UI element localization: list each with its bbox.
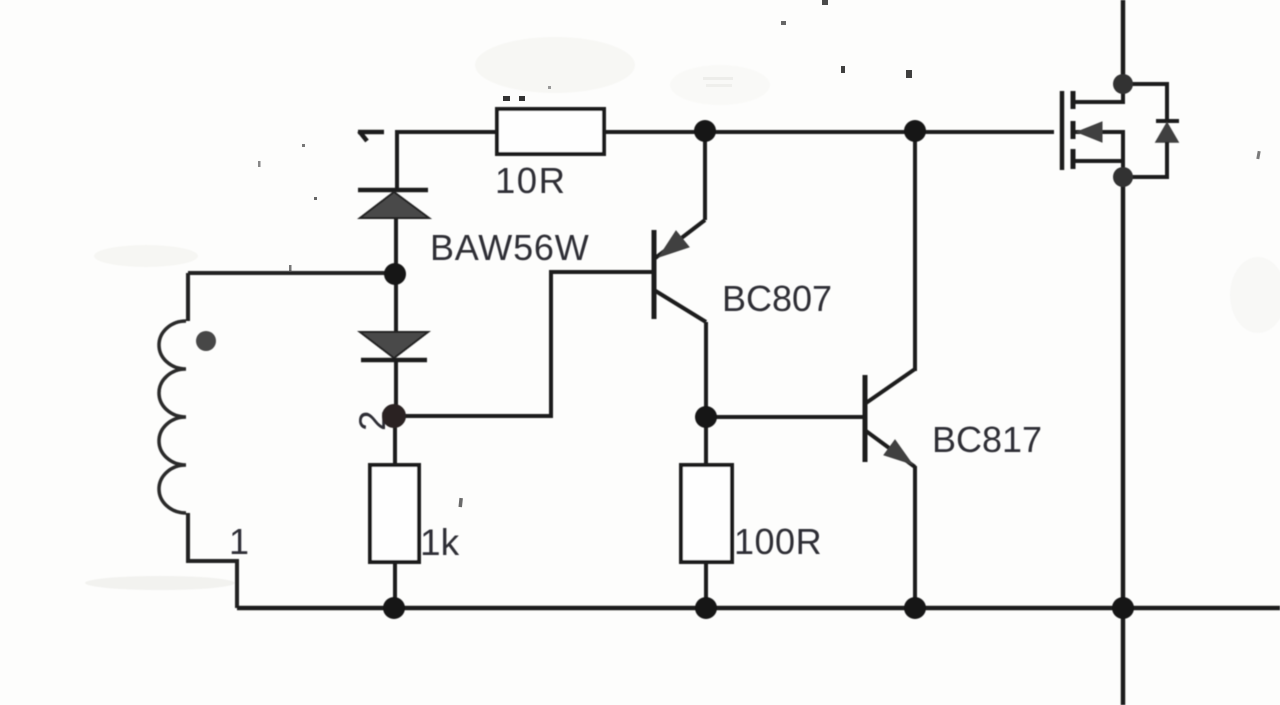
body diode of mosfet (1123, 84, 1179, 177)
wire D2 to node 2 (394, 360, 398, 416)
scan speck 14 (289, 265, 292, 271)
wire transformer left top vertical (186, 273, 190, 321)
wire top rail left segment (397, 130, 497, 134)
node ground rail at R3 (695, 597, 717, 619)
svg-text:1k: 1k (420, 522, 460, 563)
transformer winding L1 (159, 321, 186, 513)
scan smudge patches (85, 37, 1280, 590)
scan speck 3 (841, 66, 845, 73)
scan tick 8 (458, 498, 462, 507)
node on top rail at BC817 collector (904, 120, 926, 142)
node ground rail at main rail (1112, 597, 1134, 619)
svg-text:BC807: BC807 (722, 278, 832, 319)
scan speck 11 (302, 144, 305, 147)
wire left vertical corner down to diode D1 (395, 130, 399, 190)
svg-text:BC817: BC817 (932, 419, 1042, 460)
scan speck 5 (548, 86, 551, 89)
svg-text:BAW56W: BAW56W (430, 227, 590, 268)
source connection with arrow (1073, 132, 1123, 177)
scan speck dash 7b (519, 96, 525, 101)
wire BC807 emitter vertical (703, 131, 707, 220)
wire node 2 to resistor R2 top (393, 416, 397, 465)
wire resistor R3 bottom to ground rail (704, 562, 708, 608)
scan speck 2 (781, 21, 786, 25)
wire BC807 collector vertical to node B (704, 322, 708, 417)
resistor R1 10R (497, 109, 604, 154)
wire main drain rail top vertical (1121, 0, 1126, 84)
channel dashes (1071, 91, 1076, 169)
wire node B to BC817 base (706, 415, 863, 419)
diode D2 BAW56W lower (pointing down) (360, 332, 428, 360)
node ground rail at BC817 emitter (904, 597, 926, 619)
node B at BC817 base (695, 406, 717, 428)
wire resistor R2 bottom to ground rail (393, 562, 397, 608)
wire transformer bottom lead (188, 513, 237, 608)
wire BC817 collector vertical (913, 131, 917, 371)
scan dash 10 (703, 77, 733, 80)
wire transformer secondary top (188, 271, 396, 275)
scan speck 12 (258, 161, 261, 167)
gate bar (1060, 91, 1065, 170)
node A between diodes (384, 263, 406, 285)
junction dot mosfet drain (1113, 74, 1133, 94)
resistor R3 100R (681, 465, 732, 562)
node 2 below D2 (382, 404, 406, 428)
scan speck 4 (906, 70, 912, 78)
scan tick 9 (1256, 151, 1260, 159)
wire bottom ground rail (237, 606, 1280, 611)
svg-text:10R: 10R (495, 160, 566, 201)
bulk connection (1073, 159, 1123, 163)
pin label 1 (rotated, top of diode chain) (358, 131, 384, 141)
scan speck 1 (822, 0, 828, 5)
diode D1 BAW56W upper (pointing up) (358, 190, 429, 218)
scan speck 13 (314, 197, 317, 200)
resistor R2 1k (370, 465, 419, 562)
svg-text:1: 1 (229, 521, 249, 562)
mosfet Q3 (p-channel) (1062, 84, 1123, 177)
junction dot mosfet source (1113, 167, 1133, 187)
drain connection (1073, 84, 1123, 102)
wire node B to resistor R3 top (704, 417, 708, 465)
node on top rail at BC807 emitter (694, 120, 716, 142)
transistor Q1 BC807 PNP (654, 220, 706, 322)
node ground rail at R2 (383, 597, 405, 619)
wire top rail right segment (604, 130, 1054, 134)
wire BC817 emitter vertical to ground rail (913, 466, 917, 608)
wire node A to D2 (394, 274, 398, 332)
polarity dot (196, 331, 216, 351)
svg-text:100R: 100R (734, 521, 822, 562)
wire main rail below mosfet to bottom edge (1121, 177, 1126, 705)
wire D1 to node A (394, 218, 398, 274)
scan speck dash 7a (503, 96, 510, 101)
transistor Q2 BC817 NPN (865, 369, 915, 467)
wire node 2 to BC807 base (395, 272, 652, 416)
